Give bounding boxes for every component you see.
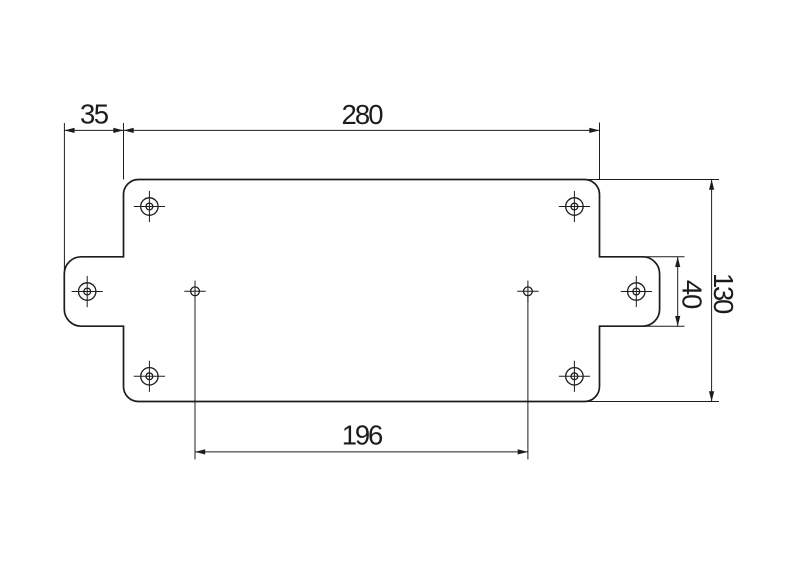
svg-text:40: 40 [676, 280, 707, 310]
hole top-right [559, 191, 590, 222]
hole left tab [72, 276, 103, 307]
small hole right [517, 281, 538, 302]
plate outline [64, 180, 659, 402]
dimension 280 [124, 123, 600, 180]
dimension 35 [64, 123, 123, 273]
dimension 196 [195, 295, 528, 459]
hole right tab [621, 276, 652, 307]
svg-text:35: 35 [80, 99, 109, 130]
hole bottom-right [559, 361, 590, 392]
svg-text:196: 196 [342, 420, 384, 451]
hole bottom-left [134, 361, 165, 392]
hole top-left [134, 191, 165, 222]
small hole left [184, 281, 205, 302]
svg-text:280: 280 [342, 99, 384, 130]
svg-text:130: 130 [708, 273, 739, 315]
dimension 40 [643, 257, 685, 326]
dimension 130 [585, 180, 720, 402]
